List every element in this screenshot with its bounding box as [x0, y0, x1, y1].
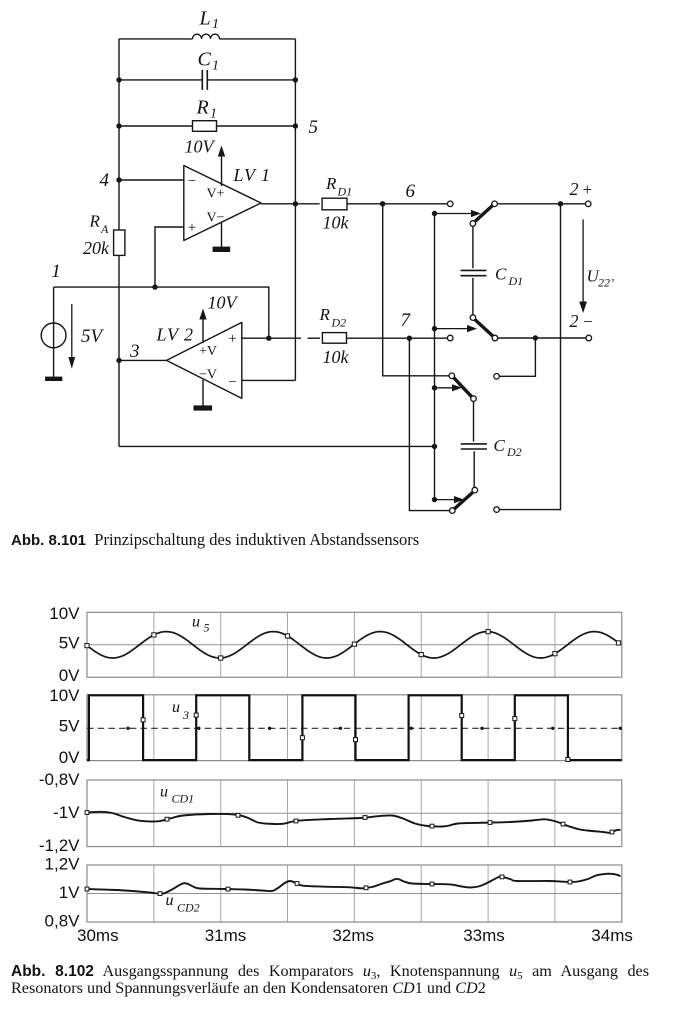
svg-text:3: 3	[129, 341, 140, 362]
svg-text:5V: 5V	[59, 716, 80, 735]
svg-text:1: 1	[212, 58, 219, 73]
svg-text:D2: D2	[506, 445, 522, 459]
svg-text:0V: 0V	[59, 666, 80, 685]
svg-text:C: C	[495, 265, 507, 284]
svg-text:10k: 10k	[323, 213, 350, 233]
svg-text:u: u	[172, 699, 180, 716]
svg-text:u: u	[192, 614, 200, 631]
svg-text:u: u	[166, 892, 174, 909]
svg-text:C: C	[494, 436, 506, 455]
svg-text:R: R	[319, 305, 331, 324]
svg-text:10V: 10V	[185, 137, 216, 157]
svg-text:−: −	[228, 375, 236, 391]
svg-text:-1,2V: -1,2V	[39, 836, 80, 855]
svg-text:5V: 5V	[59, 633, 80, 652]
svg-text:0,8V: 0,8V	[45, 912, 81, 931]
svg-text:7: 7	[401, 310, 412, 331]
svg-text:33ms: 33ms	[463, 926, 505, 945]
svg-text:1V: 1V	[59, 883, 80, 902]
svg-text:+: +	[188, 220, 196, 236]
svg-text:C: C	[198, 48, 212, 70]
svg-text:A: A	[100, 222, 109, 236]
svg-text:L: L	[199, 7, 211, 29]
svg-text:1: 1	[210, 106, 217, 121]
svg-text:-0,8V: -0,8V	[39, 770, 80, 789]
svg-text:LV 2: LV 2	[156, 325, 195, 345]
svg-text:V+: V+	[206, 187, 224, 202]
svg-text:+V: +V	[199, 344, 217, 359]
svg-text:30ms: 30ms	[77, 926, 119, 945]
svg-text:10V: 10V	[49, 686, 80, 705]
svg-text:10k: 10k	[323, 347, 350, 367]
svg-text:2: 2	[570, 311, 579, 331]
svg-text:−: −	[583, 312, 593, 331]
svg-text:5V: 5V	[81, 326, 105, 347]
svg-text:R: R	[89, 212, 101, 231]
svg-text:V−: V−	[206, 211, 224, 226]
svg-text:20k: 20k	[83, 238, 110, 258]
svg-text:5: 5	[204, 621, 210, 635]
svg-text:+: +	[228, 331, 236, 347]
svg-text:−V: −V	[199, 368, 217, 383]
svg-text:4: 4	[100, 170, 110, 191]
svg-text:+: +	[583, 180, 593, 199]
svg-text:22’: 22’	[598, 276, 614, 290]
svg-text:2: 2	[570, 179, 579, 199]
svg-text:1,2V: 1,2V	[45, 855, 81, 874]
svg-text:CD2: CD2	[177, 900, 200, 914]
svg-text:10V: 10V	[49, 604, 80, 623]
svg-text:u: u	[160, 784, 168, 801]
svg-text:10V: 10V	[208, 293, 239, 313]
svg-text:0V: 0V	[59, 748, 80, 767]
svg-text:31ms: 31ms	[205, 926, 247, 945]
svg-text:32ms: 32ms	[332, 926, 374, 945]
svg-text:D1: D1	[337, 185, 353, 199]
svg-text:5: 5	[309, 117, 319, 138]
svg-text:6: 6	[406, 181, 416, 202]
svg-text:3: 3	[182, 708, 189, 722]
svg-text:1: 1	[212, 17, 219, 32]
svg-text:1: 1	[51, 261, 61, 282]
svg-text:−: −	[188, 174, 196, 190]
svg-text:34ms: 34ms	[591, 926, 633, 945]
svg-text:D2: D2	[331, 316, 347, 330]
svg-text:D1: D1	[508, 274, 524, 288]
svg-text:-1V: -1V	[53, 803, 80, 822]
svg-text:LV 1: LV 1	[233, 165, 272, 185]
svg-text:R: R	[196, 96, 209, 118]
svg-text:R: R	[325, 174, 337, 193]
svg-text:CD1: CD1	[172, 792, 195, 806]
